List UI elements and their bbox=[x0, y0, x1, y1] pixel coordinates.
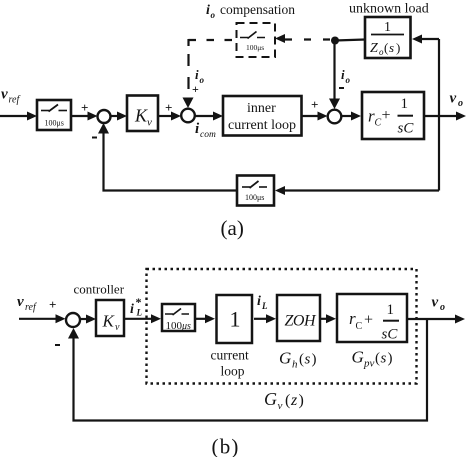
svg-text:v: v bbox=[1, 87, 8, 103]
svg-text:s: s bbox=[389, 40, 394, 55]
arrowhead into block 1 bbox=[205, 314, 215, 323]
svg-text:unknown load: unknown load bbox=[349, 2, 429, 17]
svg-text:z: z bbox=[290, 392, 298, 409]
label current loop bbox=[211, 348, 249, 379]
wire inner loop to S3 bbox=[302, 115, 319, 117]
node i_L label bbox=[257, 294, 268, 311]
svg-text:i: i bbox=[206, 3, 210, 18]
svg-text:o: o bbox=[346, 75, 351, 85]
svg-text:+: + bbox=[364, 312, 373, 329]
arrowhead io into S3 bbox=[329, 99, 340, 110]
wire Kv to sampler T4 bbox=[124, 318, 152, 320]
arrowhead into rc block (b) bbox=[326, 314, 336, 323]
svg-text:ref: ref bbox=[25, 302, 37, 313]
svg-text:(: ( bbox=[285, 392, 290, 409]
summing junction S4 bbox=[66, 313, 80, 327]
block ZOH bbox=[277, 295, 320, 341]
svg-text:v: v bbox=[147, 117, 152, 129]
svg-text:+: + bbox=[311, 97, 318, 112]
svg-text:L: L bbox=[261, 301, 268, 311]
svg-text:o: o bbox=[458, 98, 463, 109]
wire arrowhead into S1 bbox=[88, 112, 98, 121]
svg-text:100μs: 100μs bbox=[246, 43, 264, 52]
wire arrowhead into S3 bbox=[318, 112, 328, 121]
wire dashed corner stub bbox=[187, 39, 189, 46]
label Gv(z) bbox=[264, 389, 304, 412]
svg-text:G: G bbox=[264, 389, 277, 409]
svg-text:s: s bbox=[381, 351, 387, 367]
block 1 current loop bbox=[217, 295, 253, 343]
wire ZOH to rc block (b) bbox=[320, 318, 327, 320]
arrowhead into sampler T3 bbox=[275, 186, 285, 195]
node i_o label right branch bbox=[341, 67, 351, 85]
wire arrowhead into dashed box bbox=[275, 34, 285, 43]
svg-text:): ) bbox=[299, 392, 304, 409]
dashed box around sampler T2 bbox=[237, 23, 276, 57]
wire arrowhead into inner current loop bbox=[213, 112, 223, 121]
summing junction S2 bbox=[181, 109, 195, 123]
svg-text:i: i bbox=[195, 67, 199, 82]
svg-text:v: v bbox=[17, 294, 24, 310]
summing junction S3 bbox=[328, 110, 342, 124]
svg-text:v: v bbox=[115, 322, 120, 333]
svg-text:pv: pv bbox=[363, 358, 375, 370]
wire T4 to block 1 bbox=[195, 318, 206, 320]
svg-text:compensation: compensation bbox=[220, 2, 295, 17]
wire S1 to Kv bbox=[111, 115, 120, 117]
svg-text:K: K bbox=[134, 106, 148, 126]
svg-text:1: 1 bbox=[384, 20, 391, 35]
svg-text:C: C bbox=[375, 118, 382, 129]
node i_L* label bbox=[130, 295, 143, 318]
sampler T3 (100us) bbox=[237, 176, 274, 206]
wire Kv to S2 bbox=[158, 115, 172, 117]
svg-text:v: v bbox=[450, 91, 457, 107]
svg-text:sC: sC bbox=[382, 327, 399, 343]
svg-text:+: + bbox=[192, 82, 199, 96]
svg-text:loop: loop bbox=[221, 364, 245, 379]
svg-text:1: 1 bbox=[230, 307, 241, 332]
wire unknown load output to node A bbox=[335, 40, 365, 41]
arrowhead into Kv (b) bbox=[86, 315, 96, 324]
node A junction dot bbox=[331, 37, 339, 45]
svg-text:Z: Z bbox=[370, 41, 378, 56]
svg-text:i: i bbox=[257, 294, 261, 309]
svg-text:i: i bbox=[130, 302, 134, 317]
wire feedback (b) bbox=[74, 319, 428, 421]
wire S2 to inner current loop bbox=[195, 115, 214, 117]
svg-text:com: com bbox=[200, 130, 216, 140]
svg-text:i: i bbox=[341, 67, 345, 82]
node v_ref label (b) bbox=[17, 294, 37, 313]
svg-text:): ) bbox=[388, 351, 393, 367]
svg-text:ref: ref bbox=[9, 95, 21, 106]
block rc+1/sC (b) bbox=[337, 294, 407, 343]
label Gh(s) bbox=[279, 349, 317, 371]
sampler T4 (100us) bbox=[162, 304, 195, 332]
wire S3 to rc block bbox=[342, 115, 353, 117]
wire bottom feedback right segment (a) bbox=[285, 189, 439, 191]
arrowhead into unknown load bbox=[412, 35, 422, 44]
wire vertical feedback into unknown load bbox=[421, 38, 439, 40]
dotted box Gv(z) bbox=[147, 269, 417, 384]
block 1/Zo(s) unknown load bbox=[365, 17, 411, 58]
svg-text:(: ( bbox=[299, 352, 304, 368]
svg-text:sC: sC bbox=[398, 121, 415, 137]
label Gpv(s) bbox=[352, 348, 393, 370]
sampler T1 (100us) bbox=[37, 100, 71, 130]
node v_o label (b) bbox=[432, 295, 446, 314]
svg-text:o: o bbox=[440, 302, 445, 313]
svg-text:+: + bbox=[81, 100, 88, 115]
wire dashed horizontal corner to dashed box bbox=[189, 39, 237, 41]
minus sign at S4 bbox=[55, 344, 60, 346]
svg-text:v: v bbox=[432, 295, 439, 311]
wire dashed vertical io-comp into S2 bbox=[187, 43, 189, 96]
svg-text:1: 1 bbox=[401, 96, 409, 112]
wire dashed from node A to dashed box bbox=[285, 38, 331, 40]
svg-text:o: o bbox=[200, 75, 205, 85]
wire output (a) bbox=[424, 115, 457, 117]
wire output (b) bbox=[407, 318, 456, 320]
svg-text:current: current bbox=[211, 348, 249, 363]
arrowhead feedback into S4 bbox=[68, 328, 79, 339]
svg-text:h: h bbox=[292, 359, 298, 371]
node i_o label left branch bbox=[195, 67, 205, 85]
svg-text:controller: controller bbox=[74, 282, 125, 297]
svg-text:): ) bbox=[312, 352, 317, 368]
block inner current loop bbox=[223, 96, 302, 136]
svg-text:+: + bbox=[382, 107, 391, 124]
svg-text:100μs: 100μs bbox=[166, 320, 192, 332]
svg-text:v: v bbox=[278, 400, 283, 412]
svg-text:L: L bbox=[136, 308, 143, 318]
wire bottom feedback left segment (a) bbox=[104, 132, 238, 191]
arrowhead into ZOH bbox=[266, 314, 276, 323]
svg-text:1: 1 bbox=[387, 302, 395, 318]
svg-text:G: G bbox=[352, 348, 364, 367]
svg-text:ZOH: ZOH bbox=[285, 313, 317, 330]
wire vertical feedback right (a) bbox=[438, 39, 440, 191]
svg-text:inner: inner bbox=[247, 101, 276, 116]
block Kv (b) bbox=[96, 300, 124, 336]
svg-text:K: K bbox=[102, 312, 116, 331]
svg-text:o: o bbox=[211, 10, 216, 20]
svg-text:C: C bbox=[356, 321, 363, 332]
svg-text:(a): (a) bbox=[221, 216, 244, 240]
wire block1 to ZOH bbox=[254, 318, 267, 320]
wire S4 to Kv (b) bbox=[80, 318, 88, 320]
wire arrowhead into S2 bbox=[171, 112, 181, 121]
node v_ref label (a) bbox=[1, 87, 20, 106]
svg-text:100μs: 100μs bbox=[245, 193, 264, 202]
arrowhead into sampler T4 bbox=[151, 314, 161, 323]
svg-text:G: G bbox=[279, 349, 291, 368]
arrowhead into S4 bbox=[56, 314, 66, 323]
svg-text:(: ( bbox=[375, 351, 380, 367]
wire node A down to S3 bbox=[333, 44, 335, 99]
node v_o label (a) bbox=[450, 91, 464, 110]
summing junction S1 bbox=[98, 110, 111, 123]
arrowhead io-comp into S2 bbox=[183, 98, 194, 109]
svg-text:(b): (b) bbox=[212, 435, 240, 457]
label i_o compensation bbox=[206, 2, 295, 20]
arrowhead into rc block bbox=[351, 112, 361, 121]
svg-text:): ) bbox=[396, 40, 400, 55]
svg-text:+: + bbox=[49, 297, 56, 312]
wire input (a) bbox=[0, 115, 29, 117]
svg-text:s: s bbox=[305, 352, 311, 368]
svg-text:current loop: current loop bbox=[228, 118, 296, 133]
svg-text:100μs: 100μs bbox=[45, 119, 64, 128]
minus sign at S1 bbox=[92, 137, 97, 139]
svg-text:(: ( bbox=[384, 40, 388, 55]
arrowhead output (a) bbox=[456, 112, 466, 121]
block rc+1/sC (a) bbox=[362, 92, 424, 139]
wire T1 to S1 bbox=[71, 115, 89, 117]
minus sign io at S3 bbox=[339, 87, 344, 89]
sampler T2 (100us) bbox=[240, 32, 265, 53]
arrowhead feedback into S1 bbox=[98, 123, 109, 134]
arrowhead output (b) bbox=[455, 315, 465, 324]
wire input (b) bbox=[19, 318, 56, 320]
node i_com label bbox=[195, 121, 216, 140]
wire arrowhead into Kv bbox=[117, 112, 127, 121]
wire arrowhead into sampler T1 bbox=[27, 112, 37, 121]
block Kv (a) bbox=[127, 96, 158, 132]
